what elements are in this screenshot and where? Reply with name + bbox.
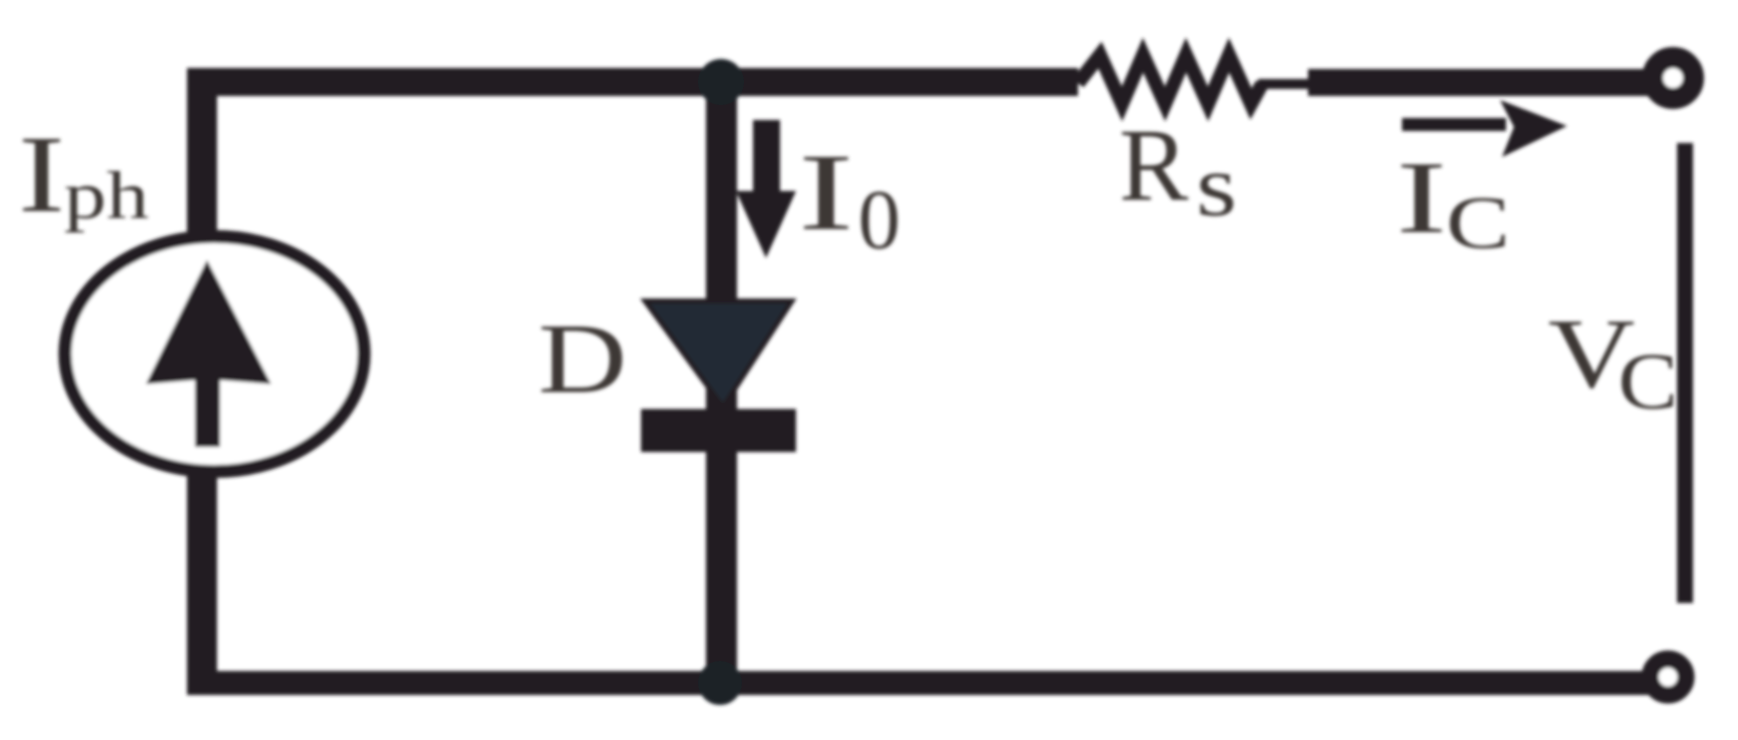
node top junction	[698, 59, 744, 105]
svg-text:C: C	[1446, 182, 1510, 265]
wire bottom horizontal	[187, 671, 1668, 695]
wire resistor-to-terminal thin link	[1258, 79, 1312, 89]
svg-text:C: C	[1618, 338, 1678, 426]
wire diode branch vertical	[706, 80, 737, 680]
svg-text:ph: ph	[64, 157, 149, 233]
arrow Ic (output current)	[1402, 118, 1506, 131]
terminal bottom right	[1650, 659, 1686, 695]
current source arrow	[146, 260, 271, 447]
resistor Rs zigzag	[1078, 55, 1262, 104]
svg-text:D: D	[538, 303, 627, 414]
wire top horizontal right segment	[1308, 69, 1658, 96]
wire top horizontal left segment	[187, 68, 1078, 96]
svg-text:0: 0	[858, 173, 901, 267]
wire left vertical lower	[187, 472, 217, 694]
svg-text:I: I	[798, 131, 854, 253]
wire left vertical upper	[187, 68, 217, 236]
svg-text:R: R	[1119, 108, 1189, 223]
current source Iph circle	[65, 237, 364, 472]
node bottom junction	[698, 661, 742, 705]
arrow I0 (diode current)	[736, 120, 796, 258]
terminal top right	[1653, 58, 1694, 99]
svg-text:I: I	[1396, 141, 1447, 255]
Vc measurement bar	[1677, 143, 1693, 603]
svg-text:s: s	[1196, 138, 1237, 235]
svg-text:I: I	[18, 113, 65, 235]
diode D triangle	[645, 301, 792, 407]
diode D cathode bar	[641, 409, 796, 452]
